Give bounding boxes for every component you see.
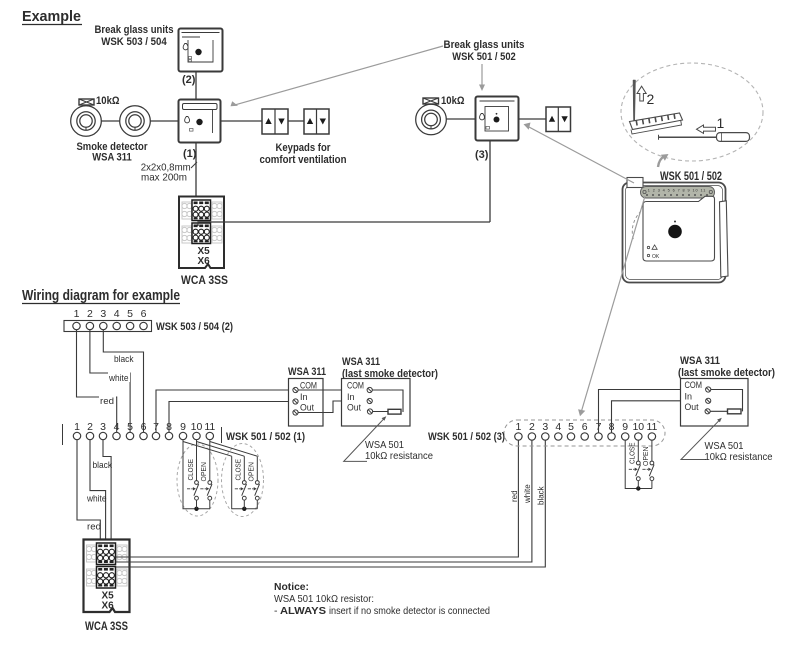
svg-text:Break glass units: Break glass units bbox=[444, 39, 525, 51]
svg-text:red: red bbox=[87, 522, 101, 533]
keypad K2 bbox=[304, 109, 329, 134]
svg-text:Example: Example bbox=[22, 8, 81, 25]
svg-text:white: white bbox=[523, 484, 532, 504]
wire K1 to K2 bbox=[288, 120, 304, 122]
svg-text:Wiring diagram for example: Wiring diagram for example bbox=[22, 287, 180, 304]
switch OPEN group1 bbox=[200, 481, 212, 501]
label WSA 501 10kOhm resistance (right) bbox=[705, 440, 773, 463]
svg-text:WSK 503 / 504 (2): WSK 503 / 504 (2) bbox=[156, 321, 233, 333]
wire label white bbox=[108, 373, 130, 385]
label Smoke detector WSA 311 bbox=[77, 141, 149, 164]
wire white: X5 to strip3 t2 bbox=[116, 440, 532, 562]
svg-text:10: 10 bbox=[191, 421, 203, 433]
svg-text:white: white bbox=[108, 373, 128, 384]
smoke detector SD3 bbox=[416, 104, 447, 135]
pin / nail bbox=[633, 80, 636, 127]
svg-text:11: 11 bbox=[204, 421, 215, 433]
svg-text:10: 10 bbox=[632, 421, 644, 433]
svg-text:X6: X6 bbox=[102, 601, 115, 612]
wire red: strip2 t1 to strip1 t4 bbox=[77, 330, 117, 432]
svg-text:4: 4 bbox=[114, 421, 120, 433]
wire strip1 t10 to CLOSE switch bbox=[196, 440, 198, 481]
wire U2 to U1 bbox=[195, 72, 197, 99]
keypad switch group 1 (dashed ellipse) bbox=[177, 444, 218, 516]
smoke detector SD1 bbox=[71, 106, 102, 137]
svg-text:3: 3 bbox=[542, 421, 548, 433]
wire U3 to keypad K3 bbox=[519, 118, 547, 120]
terminal bar bbox=[641, 187, 715, 199]
resistor WSA 501 inside module bbox=[388, 409, 401, 414]
svg-text:WSK 501 / 502: WSK 501 / 502 bbox=[452, 51, 516, 63]
svg-text:1: 1 bbox=[717, 115, 725, 131]
svg-text:WSA 311: WSA 311 bbox=[92, 152, 132, 164]
diagonal feed wires to group 2 bbox=[183, 442, 257, 457]
junction dot group3 bbox=[636, 486, 640, 490]
wire SD1-SD2 bbox=[101, 120, 120, 122]
svg-text:2: 2 bbox=[87, 421, 93, 433]
svg-text:WSK 501 / 502 (3): WSK 501 / 502 (3) bbox=[428, 431, 505, 443]
svg-text:In: In bbox=[685, 392, 693, 402]
svg-text:OPEN: OPEN bbox=[199, 462, 208, 482]
wire strip1 t11 to OPEN switch bbox=[209, 440, 211, 481]
svg-text:Out: Out bbox=[347, 403, 361, 413]
svg-text:Out: Out bbox=[685, 402, 699, 412]
svg-text:Out: Out bbox=[300, 403, 314, 413]
wire WSA311 COM to last WSA311 COM bbox=[298, 389, 367, 391]
svg-text:OPEN: OPEN bbox=[247, 462, 256, 482]
svg-text:6: 6 bbox=[141, 421, 147, 433]
svg-text:In: In bbox=[347, 392, 355, 402]
wire group2 common down bbox=[232, 456, 258, 509]
wire WSA311 Out to last WSA311 In bbox=[298, 401, 367, 413]
wire strip3 t7 to last WSA311 COM bbox=[599, 390, 706, 433]
svg-text:5: 5 bbox=[127, 421, 133, 433]
svg-text:1 2 3 4 5 6 7 8 9 10 11: 1 2 3 4 5 6 7 8 9 10 11 bbox=[648, 189, 706, 193]
svg-text:max 200m: max 200m bbox=[141, 172, 187, 184]
button bbox=[668, 225, 682, 239]
svg-text:1: 1 bbox=[515, 421, 521, 433]
label Break glass units WSK 503/504 bbox=[95, 24, 174, 48]
switch OPEN group3 bbox=[651, 440, 653, 461]
svg-text:1: 1 bbox=[74, 308, 80, 320]
svg-text:10kΩ: 10kΩ bbox=[96, 95, 120, 107]
break glass unit U1 (WSK 501/502 no.1) bbox=[179, 100, 221, 143]
svg-text:X6: X6 bbox=[198, 256, 211, 267]
connector block WCA 3SS (bottom) bbox=[84, 540, 130, 613]
svg-text:3: 3 bbox=[100, 308, 106, 320]
svg-text:10kΩ: 10kΩ bbox=[441, 95, 465, 107]
wire strip1 t8 to WSA311 In bbox=[169, 402, 293, 433]
wire white: strip1 t2 down to X5 bbox=[90, 440, 106, 543]
svg-text:black: black bbox=[537, 485, 546, 505]
resistor 10kOhm (for SD3) bbox=[423, 95, 465, 107]
svg-text:(1): (1) bbox=[183, 148, 197, 160]
connector X5 (bottom block) bbox=[97, 543, 116, 565]
svg-text:CLOSE: CLOSE bbox=[234, 459, 243, 481]
side wall bbox=[720, 201, 729, 277]
break glass unit U2 (WSK 503/504) bbox=[179, 29, 223, 72]
svg-text:WSK 503 / 504: WSK 503 / 504 bbox=[101, 36, 167, 48]
svg-text:WSA 311: WSA 311 bbox=[288, 366, 326, 378]
curved arrow to device bbox=[658, 154, 669, 167]
svg-text:5: 5 bbox=[568, 421, 574, 433]
terminal strip WSK 501/502 (1) bbox=[63, 421, 306, 445]
svg-text:10kΩ resistance: 10kΩ resistance bbox=[705, 451, 773, 463]
break glass unit U3 (WSK 501/502 no.3) bbox=[476, 97, 519, 141]
wire black: X5 to strip3 t3 bbox=[116, 440, 546, 567]
svg-text:11: 11 bbox=[646, 421, 657, 433]
resistor 10kOhm (top-left) bbox=[79, 95, 120, 107]
heading Wiring diagram for example bbox=[22, 287, 180, 304]
wire U1 to keypad K1 bbox=[221, 120, 263, 122]
label WSA 501 10kOhm resistance (left) bbox=[365, 439, 433, 462]
svg-text:red: red bbox=[100, 396, 114, 407]
svg-text:black: black bbox=[93, 460, 113, 471]
svg-text:10kΩ resistance: 10kΩ resistance bbox=[365, 450, 433, 462]
wire U3 to X6 of WCA 3SS bbox=[198, 222, 490, 226]
svg-text:OPEN: OPEN bbox=[641, 447, 650, 467]
svg-text:6: 6 bbox=[141, 308, 147, 320]
svg-text:COM: COM bbox=[300, 381, 317, 391]
switch CLOSE group2 bbox=[243, 456, 245, 480]
junction dot group1 bbox=[194, 507, 198, 511]
wire U3 down bbox=[489, 141, 491, 223]
smoke detector module WSA 311 (last, right) bbox=[678, 355, 775, 426]
pointer line device to U3 bbox=[524, 123, 635, 184]
terminal strip WSK 501/502 (3) dashed outline bbox=[428, 420, 665, 446]
svg-text:Break glass units: Break glass units bbox=[95, 24, 174, 36]
wire black: strip2 t3 to strip1 t6 bbox=[103, 330, 143, 432]
wire SD2 to box U1 bbox=[150, 120, 178, 122]
connector block WCA 3SS (top) bbox=[179, 197, 224, 269]
svg-text:2: 2 bbox=[87, 308, 93, 320]
label Keypads for comfort ventilation bbox=[260, 142, 347, 166]
svg-text:WSA 311: WSA 311 bbox=[680, 355, 720, 367]
hinge dashed arc bbox=[632, 211, 641, 240]
wire black: strip1 t3 down to X5 bbox=[103, 440, 111, 543]
svg-text:WSK 501 / 502 (1): WSK 501 / 502 (1) bbox=[226, 431, 305, 443]
arrow 2 (white up arrow) bbox=[637, 86, 655, 107]
wire strip1 t9 common down bbox=[183, 440, 210, 509]
svg-text:(3): (3) bbox=[475, 149, 489, 161]
cable notch bbox=[627, 178, 643, 188]
svg-text:4: 4 bbox=[555, 421, 561, 433]
keypad K1 bbox=[262, 109, 288, 134]
arrow 1 (white left arrow) bbox=[697, 115, 725, 133]
label cable spec 2x2x0,8mm max 200m bbox=[141, 162, 197, 184]
wire white: strip2 t2 to strip1 t5 bbox=[90, 330, 130, 432]
svg-text:black: black bbox=[114, 354, 134, 365]
svg-text:white: white bbox=[86, 494, 106, 505]
smoke detector module WSA 311 (last, with resistor) bbox=[342, 356, 439, 426]
keypad K3 bbox=[546, 107, 571, 132]
switch CLOSE group1 bbox=[187, 481, 199, 501]
connector X5 (top block) bbox=[192, 200, 211, 221]
pointer arrow from label down to U3 bbox=[479, 64, 485, 91]
cover panel bbox=[643, 196, 715, 261]
connector X6 (bottom block) bbox=[97, 567, 116, 589]
svg-text:5: 5 bbox=[127, 308, 133, 320]
svg-text:WSA 311: WSA 311 bbox=[342, 356, 380, 368]
switch OPEN group2 bbox=[256, 456, 258, 480]
screwdriver bbox=[658, 133, 750, 142]
svg-text:WSA 501 10kΩ resistor:: WSA 501 10kΩ resistor: bbox=[274, 593, 374, 605]
pointer line device to strip (3) bbox=[578, 196, 645, 416]
wire red: strip1 t1 down to X5 bbox=[77, 440, 100, 543]
wire SD3 to U3 bbox=[446, 118, 475, 120]
svg-text:WCA 3SS: WCA 3SS bbox=[85, 621, 128, 633]
svg-text:9: 9 bbox=[622, 421, 628, 433]
switch CLOSE group3 bbox=[637, 440, 639, 461]
svg-text:WCA 3SS: WCA 3SS bbox=[181, 275, 228, 287]
svg-text:insert if no smoke detector is: insert if no smoke detector is connected bbox=[329, 605, 490, 617]
pointer to resistor bbox=[344, 418, 385, 461]
svg-text:4: 4 bbox=[114, 308, 120, 320]
keypad switch group 2 (dashed ellipse) bbox=[222, 444, 264, 517]
wire strip3 t8 to last WSA311 In bbox=[612, 401, 706, 433]
wire strip1 t7 to WSA311 COM bbox=[156, 390, 293, 432]
svg-text:In: In bbox=[300, 392, 308, 402]
label Break glass units WSK 501/502 bbox=[444, 39, 525, 63]
svg-text:ALWAYS: ALWAYS bbox=[280, 605, 326, 617]
svg-text:CLOSE: CLOSE bbox=[186, 459, 195, 481]
device WSK 501/502 open unit bbox=[623, 178, 729, 283]
small indicator icons bbox=[647, 245, 660, 260]
wire U1 down to WCA 3SS bbox=[195, 143, 197, 202]
wire label black bbox=[113, 354, 135, 366]
svg-text:Keypads for: Keypads for bbox=[276, 142, 332, 154]
wire strip3 t9 common down bbox=[625, 440, 652, 488]
mounting detail dashed ellipse bbox=[621, 63, 763, 161]
wire label red bbox=[99, 396, 116, 408]
svg-text:9: 9 bbox=[180, 421, 186, 433]
svg-text:red: red bbox=[510, 490, 519, 502]
svg-text:comfort ventilation: comfort ventilation bbox=[260, 154, 347, 166]
svg-text:Notice:: Notice: bbox=[274, 581, 309, 593]
terminal strip WSK 503/504 (2) bbox=[64, 308, 233, 333]
connector X6 (top block) bbox=[192, 223, 211, 244]
svg-text:1: 1 bbox=[74, 421, 80, 433]
svg-text:OK: OK bbox=[652, 254, 660, 260]
notice text bbox=[274, 581, 490, 617]
svg-text:(2): (2) bbox=[182, 74, 196, 86]
junction dot group2 bbox=[242, 507, 246, 511]
heading Example bbox=[22, 8, 82, 25]
svg-text:(last smoke detector): (last smoke detector) bbox=[678, 367, 775, 379]
svg-text:3: 3 bbox=[100, 421, 106, 433]
svg-text:WSK 501 / 502: WSK 501 / 502 bbox=[660, 171, 722, 183]
wire red: X5 to strip3 t1 bbox=[116, 440, 519, 557]
smoke detector module WSA 311 (first) bbox=[288, 366, 326, 426]
pointer to resistor (right) bbox=[681, 420, 720, 460]
pointer line from label to U1 bbox=[231, 46, 444, 106]
svg-text:COM: COM bbox=[347, 381, 364, 391]
svg-text:COM: COM bbox=[685, 380, 703, 390]
svg-text:2: 2 bbox=[647, 91, 655, 107]
svg-text:CLOSE: CLOSE bbox=[628, 443, 637, 465]
svg-text:-: - bbox=[274, 605, 278, 617]
terminal strip (perspective) bbox=[630, 113, 683, 134]
resistor WSA 501 inside module (right) bbox=[728, 409, 742, 414]
svg-text:6: 6 bbox=[582, 421, 588, 433]
svg-text:2: 2 bbox=[529, 421, 535, 433]
smoke detector SD2 bbox=[120, 106, 151, 137]
